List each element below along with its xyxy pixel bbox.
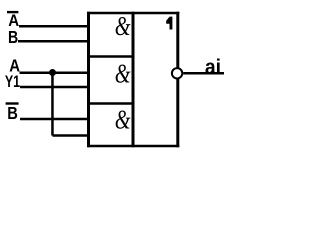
wire A input [20,71,90,74]
svg-text:&: & [115,59,131,89]
divider between AND gate 2 and 3 [87,102,134,105]
overline of B-bar [6,102,19,104]
wire branch vertical from node on A [51,73,54,136]
overline of A-bar [7,11,18,13]
AND/OR block outline: left edge [87,12,90,148]
wire Y1 input [20,86,90,89]
wire branch horizontal into gate 3 [52,134,89,137]
output inversion bubble [172,68,182,78]
node junction dot on A wire [49,69,56,76]
svg-text:Y1: Y1 [5,72,20,91]
svg-text:&: & [115,104,131,134]
OR gate label 1 [166,17,172,30]
AND/OR block outline: bottom edge [87,145,179,148]
wire B input [18,40,90,43]
svg-text:B: B [8,27,18,47]
divider between AND gate 1 and 2 [87,55,134,58]
svg-text:ai: ai [205,56,221,79]
svg-text:&: & [115,11,131,41]
svg-text:B: B [7,103,18,123]
divider between AND column and OR column [132,12,135,148]
wire A-bar input [19,25,90,28]
wire output ai [183,72,224,75]
wire B-bar input [20,118,90,121]
AND/OR block outline: right edge [176,12,179,148]
AND/OR block outline: top edge [87,12,179,15]
